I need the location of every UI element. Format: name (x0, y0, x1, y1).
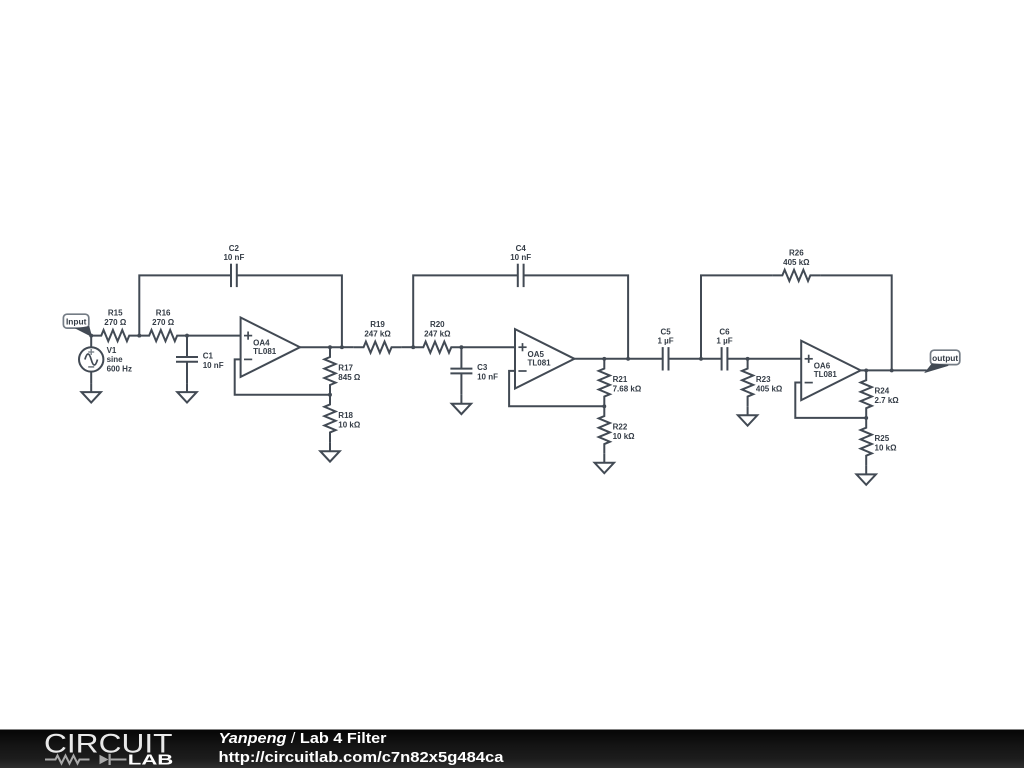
svg-text:845 Ω: 845 Ω (338, 373, 361, 382)
svg-text:R23: R23 (756, 375, 771, 384)
svg-text:247 kΩ: 247 kΩ (424, 330, 451, 339)
footer bar (0, 730, 1024, 768)
svg-text:sine: sine (107, 355, 124, 364)
wire OA6 feedback (795, 383, 866, 418)
node D (R20/C3/op-amp) (459, 345, 463, 349)
svg-text:270 Ω: 270 Ω (152, 318, 175, 327)
svg-text:405 kΩ: 405 kΩ (756, 384, 783, 393)
voltage source V1 (79, 336, 132, 384)
node B (R16/C1/op-amp) (185, 334, 189, 338)
svg-text:R16: R16 (156, 309, 171, 318)
svg-text:LAB: LAB (128, 752, 174, 768)
svg-text:R17: R17 (338, 363, 353, 372)
resistor R25 (861, 418, 897, 466)
node OA6 out / R26 riser (890, 368, 894, 372)
wire OA5 output (574, 358, 628, 360)
op-amp OA5 (515, 329, 574, 388)
svg-text:TL081: TL081 (253, 347, 277, 356)
wire C1 top lead (186, 336, 188, 357)
resistor R18 (324, 395, 360, 443)
svg-text:600 Hz: 600 Hz (107, 364, 132, 373)
output flag (926, 350, 960, 372)
wire C5 to node E (669, 358, 702, 360)
wire OA4 feedback (235, 359, 330, 394)
svg-text:270 Ω: 270 Ω (104, 318, 127, 327)
wire node D to op-amp + (461, 346, 515, 348)
svg-text:C3: C3 (477, 363, 488, 372)
svg-text:1 µF: 1 µF (716, 337, 732, 346)
resistor R26 (773, 248, 820, 281)
wire C4 left riser (413, 275, 518, 347)
wire R26 left riser (701, 275, 773, 358)
wire to output flag (892, 369, 927, 371)
wire node E to C6 (701, 358, 722, 360)
wire R19 to node C (401, 346, 413, 348)
svg-text:V1: V1 (107, 346, 117, 355)
wire node F to op-amp + (748, 358, 802, 360)
svg-text:1 µF: 1 µF (658, 337, 674, 346)
svg-text:output: output (932, 353, 958, 363)
resistor R21 (599, 359, 642, 407)
svg-text:10 kΩ: 10 kΩ (875, 443, 898, 452)
resistor R23 (742, 359, 783, 407)
capacitor C6 (716, 327, 732, 370)
svg-text:R18: R18 (338, 411, 353, 420)
ground C3 (452, 395, 471, 414)
capacitor C3 (450, 363, 498, 381)
svg-text:Yanpeng / Lab 4 Filter: Yanpeng / Lab 4 Filter (219, 731, 387, 747)
node A (R15/R16/C2) (137, 334, 141, 338)
node R17/R18 junction (328, 393, 332, 397)
svg-text:C5: C5 (660, 327, 671, 336)
CircuitLab logo resistor (45, 756, 90, 764)
wire stage3 input left (628, 358, 663, 360)
svg-text:10 kΩ: 10 kΩ (613, 432, 636, 441)
ground R22 (595, 454, 614, 473)
svg-text:R24: R24 (875, 387, 890, 396)
node F (C6/R23/op-amp) (746, 357, 750, 361)
resistor R20 (414, 320, 462, 353)
svg-text:TL081: TL081 (528, 359, 552, 368)
wire R20 to node D (460, 346, 462, 348)
svg-text:R20: R20 (430, 320, 445, 329)
node C (R19/R20/C4) (411, 345, 415, 349)
capacitor C1 (176, 352, 224, 370)
wire C3 bottom lead (460, 373, 462, 394)
svg-text:2.7 kΩ: 2.7 kΩ (875, 396, 900, 405)
wire C3 top lead (460, 347, 462, 368)
svg-text:R22: R22 (613, 422, 628, 431)
capacitor C2 (223, 244, 244, 287)
input flag (63, 314, 91, 336)
capacitor C4 (510, 244, 531, 287)
svg-text:C4: C4 (516, 244, 527, 253)
node OA6 out / R24 (864, 368, 868, 372)
op-amp OA4 (241, 318, 300, 377)
svg-text:Input: Input (66, 317, 87, 327)
wire OA5 feedback (509, 371, 604, 406)
node R21/R22 junction (602, 404, 606, 408)
ground C1 (177, 383, 196, 402)
wire C2 right segment (237, 275, 342, 347)
resistor R22 (599, 406, 635, 454)
CircuitLab logo diode (100, 755, 109, 764)
resistor R24 (861, 370, 900, 418)
svg-text:http://circuitlab.com/c7n82x5g: http://circuitlab.com/c7n82x5g484ca (219, 750, 505, 766)
ground R23 (738, 406, 757, 425)
svg-text:R19: R19 (370, 320, 385, 329)
svg-text:10 nF: 10 nF (203, 361, 224, 370)
wire C2 left riser (139, 275, 231, 335)
node OA5 out / C4 riser (626, 357, 630, 361)
capacitor C5 (658, 327, 674, 370)
wire C1 bottom lead (186, 362, 188, 383)
node input junction (89, 334, 93, 338)
wire OA4 output (300, 346, 342, 348)
wire C6 to node F (727, 358, 747, 360)
wire C4 right segment (524, 275, 629, 358)
svg-text:10 nF: 10 nF (223, 253, 244, 262)
resistor R16 (139, 309, 187, 342)
svg-text:R21: R21 (613, 375, 628, 384)
svg-text:C1: C1 (203, 352, 214, 361)
svg-text:405 kΩ: 405 kΩ (783, 258, 810, 267)
node OA4 out / R17 (328, 345, 332, 349)
resistor R19 (354, 320, 402, 353)
svg-text:R26: R26 (789, 248, 804, 257)
svg-text:R25: R25 (875, 434, 890, 443)
svg-text:10 nF: 10 nF (477, 373, 498, 382)
svg-text:R15: R15 (108, 309, 123, 318)
node R24/R25 junction (864, 416, 868, 420)
node E (C5/C6/R26) (699, 357, 703, 361)
resistor R15 (92, 309, 140, 342)
svg-text:10 nF: 10 nF (510, 253, 531, 262)
resistor R17 (324, 347, 360, 395)
wire node B to op-amp + (187, 335, 241, 337)
op-amp OA6 (801, 341, 860, 400)
svg-text:C2: C2 (229, 244, 240, 253)
node OA5 out / R21 (602, 357, 606, 361)
svg-text:C6: C6 (719, 327, 730, 336)
wire stage2 input left (342, 346, 354, 348)
wire R26 right segment (820, 275, 892, 370)
svg-text:7.68 kΩ: 7.68 kΩ (613, 384, 642, 393)
svg-text:10 kΩ: 10 kΩ (338, 420, 361, 429)
svg-text:247 kΩ: 247 kΩ (364, 330, 391, 339)
ground R25 (857, 465, 876, 484)
ground R18 (320, 442, 339, 461)
ground V1 (82, 383, 101, 402)
svg-text:TL081: TL081 (814, 370, 838, 379)
wire OA6 output (861, 369, 892, 371)
node OA4 out / C2 riser (340, 345, 344, 349)
